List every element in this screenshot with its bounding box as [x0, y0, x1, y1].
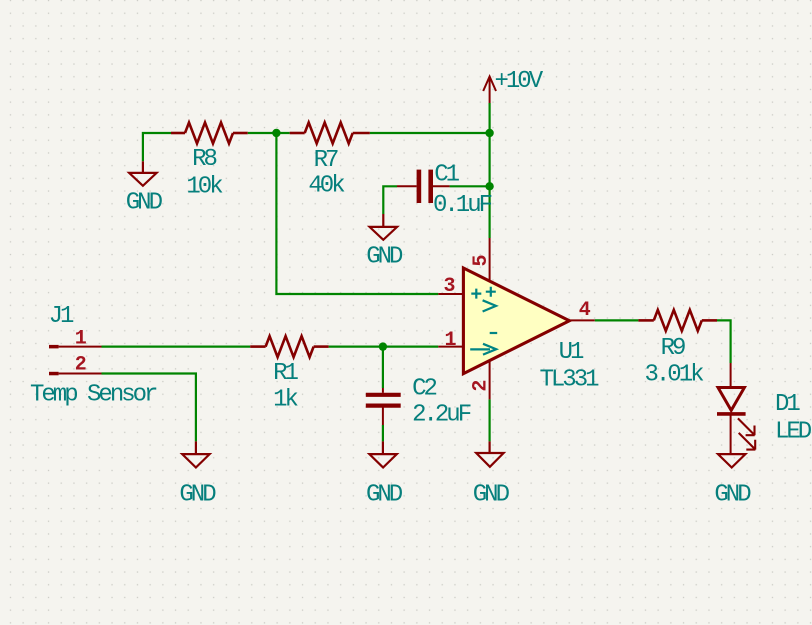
svg-text:GND: GND — [179, 482, 216, 509]
wire: R8 to R7 through junction — [248, 132, 290, 134]
capacitor C1 — [397, 170, 450, 203]
resistor R9 — [638, 310, 717, 331]
connector J1 pin 1 — [49, 345, 102, 375]
svg-text:3: 3 — [443, 275, 455, 298]
op-amp U1 pin 3 — [438, 293, 463, 295]
svg-text:2: 2 — [470, 380, 493, 392]
LED D1 — [717, 363, 755, 454]
resistor R7 — [290, 123, 370, 144]
op-amp pin name V+ (pin5) — [486, 287, 496, 297]
ground under R8 — [129, 161, 156, 186]
junction at C1 right — [485, 182, 493, 190]
wire: J1 pin1 to R1 — [102, 346, 251, 348]
svg-text:GND: GND — [366, 244, 403, 271]
wire: C2 bottom to GND — [382, 425, 384, 441]
svg-text:R7: R7 — [314, 147, 338, 174]
LED D1 emission arrows — [738, 418, 755, 435]
wire: R7 to +10V rail — [370, 132, 490, 134]
svg-text:5: 5 — [470, 254, 493, 266]
wire: C2 top — [382, 347, 384, 388]
ground under C2 — [369, 441, 396, 467]
svg-text:GND: GND — [714, 482, 751, 509]
svg-text:TL331: TL331 — [539, 366, 599, 393]
svg-text:+10V: +10V — [495, 68, 544, 95]
svg-text:J1: J1 — [49, 303, 74, 330]
wire: top rail GND-corner to R8 — [102, 103, 731, 441]
ground under C1 — [370, 214, 398, 240]
svg-text:2.2uF: 2.2uF — [412, 402, 471, 429]
svg-text:GND: GND — [473, 482, 510, 509]
svg-text:0.1uF: 0.1uF — [433, 192, 492, 219]
svg-text:C2: C2 — [412, 376, 436, 403]
op-amp pin name + (pin3) — [470, 287, 497, 355]
svg-text:U1: U1 — [559, 339, 584, 366]
svg-text:R8: R8 — [192, 146, 216, 173]
svg-text:1: 1 — [75, 327, 87, 350]
svg-text:R9: R9 — [661, 335, 685, 362]
ground under op-amp pin2 — [476, 441, 503, 466]
wire: op-amp output to R9 — [595, 319, 639, 321]
wire: C1 right to +10V rail — [450, 185, 490, 187]
op-amp U1 pin 2 — [489, 360, 491, 400]
capacitor C2 — [366, 388, 401, 425]
wire: +10V vertical down to op-amp pin 5 — [489, 103, 491, 238]
connector J1 pin 2 — [49, 372, 59, 376]
svg-text:3.01k: 3.01k — [644, 361, 704, 388]
op-amp U1 pin 4 output — [569, 319, 594, 321]
junction at +10V rail top — [485, 129, 493, 137]
wire: C1 left to GND drop — [383, 186, 397, 214]
op-amp pin name - (pin1) — [470, 348, 490, 350]
svg-text:R1: R1 — [273, 360, 298, 387]
junction at R1/C2 — [379, 342, 387, 350]
wire: op-amp pin2 to GND — [489, 399, 491, 441]
svg-text:1: 1 — [444, 329, 456, 352]
ground under LED — [718, 454, 745, 467]
svg-text:4: 4 — [579, 299, 591, 322]
svg-text:40k: 40k — [308, 173, 345, 200]
op-amp U1 pin 1 — [438, 346, 463, 348]
resistor R8 — [171, 123, 248, 144]
svg-text:LED: LED — [775, 419, 812, 446]
power symbol +10V — [483, 77, 496, 104]
svg-text:C1: C1 — [434, 161, 459, 188]
junction at R8/R7 feedback tap — [272, 129, 280, 137]
op-amp U1 body — [463, 268, 569, 374]
svg-text:1k: 1k — [273, 387, 298, 414]
wire: feedback from junction down to pin 3 — [276, 133, 438, 294]
resistor R1 — [250, 336, 328, 357]
wire: R1 to op-amp pin 1 — [329, 346, 439, 348]
svg-text:GND: GND — [366, 482, 403, 509]
wire: R9 to LED drop — [717, 320, 731, 363]
svg-text:10k: 10k — [186, 174, 223, 201]
svg-text:GND: GND — [126, 190, 163, 217]
op-amp pin name V- (pin2) — [490, 332, 498, 334]
op-amp U1 pin 5 — [489, 238, 491, 281]
svg-text:2: 2 — [75, 353, 87, 376]
svg-text:Temp Sensor: Temp Sensor — [30, 382, 157, 409]
svg-text:D1: D1 — [775, 391, 800, 418]
ground under J1 pin2 — [182, 441, 209, 467]
wire: J1 pin2 to GND drop — [102, 374, 196, 442]
